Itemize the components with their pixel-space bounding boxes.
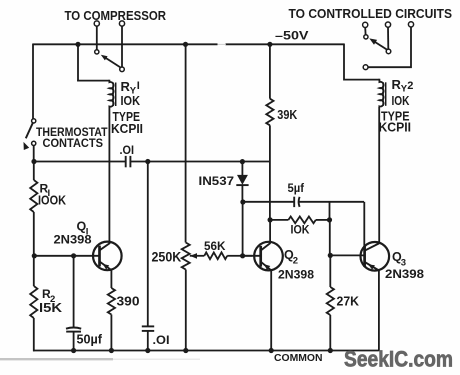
- svg-text:SeekIC.com: SeekIC.com: [344, 346, 453, 371]
- svg-text:3: 3: [401, 258, 406, 269]
- svg-text:KCPII: KCPII: [379, 119, 412, 134]
- svg-text:IOK: IOK: [392, 93, 410, 108]
- svg-text:COMMON: COMMON: [274, 353, 323, 364]
- svg-text:2: 2: [407, 80, 413, 92]
- svg-text:.OI: .OI: [153, 335, 170, 347]
- svg-text:50µf: 50µf: [77, 333, 103, 347]
- svg-text:CONTACTS: CONTACTS: [43, 136, 104, 150]
- svg-text:I5K: I5K: [39, 301, 62, 315]
- svg-text:27K: 27K: [337, 295, 360, 309]
- svg-text:KCPII: KCPII: [111, 121, 143, 136]
- svg-text:56K: 56K: [204, 239, 226, 253]
- svg-text:2: 2: [293, 256, 298, 267]
- svg-text:–50V: –50V: [275, 29, 309, 43]
- svg-text:IN537: IN537: [199, 176, 235, 188]
- svg-text:.OI: .OI: [120, 145, 135, 157]
- svg-text:I: I: [137, 80, 140, 92]
- svg-text:5µf: 5µf: [288, 183, 305, 195]
- svg-text:2N398: 2N398: [54, 234, 93, 246]
- svg-text:2N398: 2N398: [278, 270, 315, 282]
- svg-text:TO COMPRESSOR: TO COMPRESSOR: [65, 9, 167, 23]
- svg-text:TO CONTROLLED CIRCUITS: TO CONTROLLED CIRCUITS: [289, 7, 453, 21]
- svg-text:2N398: 2N398: [385, 269, 425, 281]
- svg-text:390: 390: [117, 295, 140, 309]
- svg-text:IOK: IOK: [121, 93, 141, 108]
- svg-text:IOOK: IOOK: [38, 193, 66, 207]
- svg-text:39K: 39K: [277, 108, 297, 122]
- svg-text:250K: 250K: [152, 249, 182, 265]
- svg-text:IOK: IOK: [291, 225, 311, 237]
